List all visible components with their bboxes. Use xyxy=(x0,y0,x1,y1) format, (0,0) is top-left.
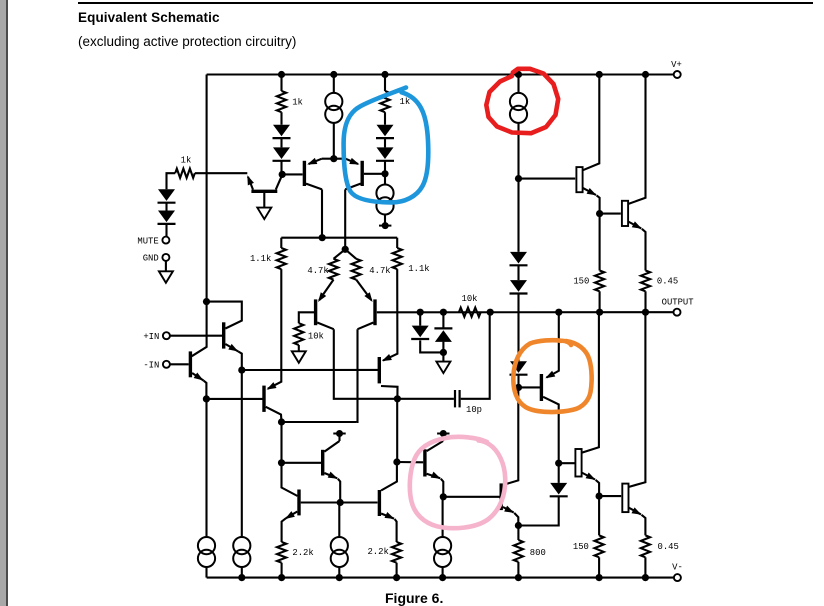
wire N17 down xyxy=(442,497,444,538)
wire N17 to Q15 base xyxy=(443,496,499,498)
resistor R5 1.1k xyxy=(393,238,430,274)
wire N1 to Q4 base xyxy=(282,173,302,175)
terminal +IN xyxy=(143,332,170,342)
wire N14 to Q14 base xyxy=(397,461,423,463)
transistor Q8 bar xyxy=(314,299,317,325)
transistor Q17 collector xyxy=(628,75,645,205)
resistor R3 1k xyxy=(380,75,410,125)
svg-text:4.7k: 4.7k xyxy=(307,266,328,276)
wire V- bottom rail xyxy=(207,577,674,579)
terminal MUTE xyxy=(137,236,169,246)
ground (Q3 base) xyxy=(257,208,271,220)
transistor Q6 emitter arrow xyxy=(265,382,277,392)
wire N11 to Q6 base xyxy=(206,398,263,400)
wire N10 to Q10 base xyxy=(242,369,378,371)
transistor Q17 emitter xyxy=(628,221,645,270)
wire mute 1k to Q3 emitter xyxy=(195,172,248,174)
transistor Q1 bar xyxy=(222,322,225,348)
ground (GND terminal) xyxy=(159,271,173,283)
node rail dot R15 xyxy=(596,574,603,581)
transistor Q4 emitter xyxy=(306,158,322,168)
wire N23 to Q20 base xyxy=(599,495,621,497)
resistor R11 2.2k xyxy=(367,542,401,578)
transistor Q14 bar xyxy=(423,449,426,476)
wire -IN to Q2 base xyxy=(170,363,189,365)
capacitor C1 10p xyxy=(455,390,482,415)
diode D2 (mute) xyxy=(158,203,176,237)
wire cap right xyxy=(461,312,490,399)
svg-text:MUTE: MUTE xyxy=(137,236,158,246)
transistor Q20 bar xyxy=(622,484,628,512)
transistor Q9 emitter xyxy=(356,280,375,304)
node rail dot R2 xyxy=(278,71,285,78)
node output dot Q18 xyxy=(555,309,562,316)
node N23 xyxy=(596,493,603,500)
transistor Q9 bar xyxy=(373,299,376,325)
current source CS7 (red circled) xyxy=(510,93,527,179)
wire left rail (V+ to Q2 collector) xyxy=(192,75,207,357)
resistor R9 10k xyxy=(459,294,481,317)
svg-text:1k: 1k xyxy=(181,155,192,165)
ground (clamp diodes) xyxy=(436,362,450,374)
transistor Q4 collector xyxy=(306,184,322,190)
resistor R7 4.7k xyxy=(345,249,390,279)
node rail dot Q17 xyxy=(642,71,649,78)
transistor Q6 collector xyxy=(266,407,282,422)
transistor Q13 bar xyxy=(297,490,300,516)
svg-text:10k: 10k xyxy=(308,332,324,342)
node N4 xyxy=(319,234,326,241)
node N8 xyxy=(440,349,447,356)
transistor Q1 collector xyxy=(207,302,242,329)
transistor Q20 emitter xyxy=(629,507,646,535)
current source CS6 xyxy=(434,537,451,578)
wire V+ top rail xyxy=(207,73,674,75)
transistor Q18 collector xyxy=(543,397,559,463)
current source CS5 xyxy=(331,537,348,578)
transistor Q13 base wire xyxy=(301,501,339,503)
wire output node xyxy=(377,311,674,313)
transistor Q2 bar xyxy=(189,351,192,377)
svg-text:1k: 1k xyxy=(400,97,411,107)
diode D10 xyxy=(510,265,528,361)
annotation blue loop xyxy=(344,88,429,203)
node N3 (Q5 base node) xyxy=(381,170,388,177)
node rail dot R10 xyxy=(278,574,285,581)
terminal Q14 collector tap xyxy=(437,430,449,437)
resistor R10 2.2k xyxy=(277,542,314,578)
transistor Q3 emitter xyxy=(244,174,254,190)
svg-text:800: 800 xyxy=(530,548,546,558)
transistor Q2 emitter xyxy=(192,373,206,399)
node N13 xyxy=(394,395,401,402)
transistor Q12 emitter xyxy=(381,512,397,542)
node N11 (Q2 emitter) xyxy=(203,395,210,402)
resistor R8 10k xyxy=(294,323,324,345)
transistor Q11 bar xyxy=(321,450,324,476)
transistor Q18 bar xyxy=(540,374,543,401)
svg-text:V-: V- xyxy=(672,563,683,573)
transistor Q20 collector xyxy=(629,312,646,487)
transistor Q3 bar xyxy=(251,190,277,193)
transistor Q18 emitter xyxy=(544,312,559,381)
node N17 xyxy=(440,493,447,500)
wire N15 to Q13 collector xyxy=(282,463,298,496)
annotation pink loop xyxy=(410,437,505,528)
wire 1.1k feed rail xyxy=(281,237,397,239)
wire N12 down xyxy=(280,422,282,463)
resistor R1 1k (mute) xyxy=(175,155,195,177)
wire N16 down xyxy=(338,503,340,538)
node N7 xyxy=(440,309,447,316)
wire N21 to Q19 base xyxy=(559,462,576,464)
transistor Q16 emitter xyxy=(583,188,600,214)
svg-text:1.1k: 1.1k xyxy=(250,254,271,264)
resistor R2 1k xyxy=(277,75,303,125)
terminal Q11 collector tap xyxy=(333,430,345,437)
terminal V+ xyxy=(671,60,682,78)
node rail dot R14 xyxy=(515,574,522,581)
transistor Q19 bar xyxy=(575,449,581,477)
wire Q5 collector drop xyxy=(344,189,346,249)
wire N12 rail xyxy=(282,421,357,423)
diode D3 xyxy=(273,125,291,138)
transistor Q5 bar xyxy=(361,161,364,186)
diode D5 xyxy=(376,125,394,138)
diode D7 clamp xyxy=(411,312,443,352)
svg-text:150: 150 xyxy=(573,542,589,552)
transistor Q5 collector xyxy=(345,184,360,190)
node rail dot CS4 xyxy=(238,574,245,581)
transistor Q15 collector xyxy=(503,387,518,485)
node rail dot R16 xyxy=(642,574,649,581)
wire GND stub xyxy=(165,261,167,271)
current source CS3 xyxy=(198,537,215,578)
transistor Q19 emitter xyxy=(582,472,600,496)
transistor Q11 collector xyxy=(324,434,339,452)
transistor Q8 emitter xyxy=(315,280,333,304)
wire N20 to Q17 base xyxy=(600,213,621,215)
transistor Q15 bar xyxy=(500,483,503,510)
wire R8 ground stub xyxy=(298,345,300,351)
transistor Q11 emitter xyxy=(324,472,340,503)
wire N19 to Q18 base xyxy=(519,386,541,388)
node rail dot CS5 xyxy=(336,574,343,581)
node output dot R12 xyxy=(596,309,603,316)
node rail dot Q16 xyxy=(596,71,603,78)
wire R5 to Q10 emitter xyxy=(383,269,397,361)
transistor Q19 collector xyxy=(582,312,599,453)
svg-text:0.45: 0.45 xyxy=(658,542,679,552)
annotation orange loop xyxy=(513,340,591,412)
annotation red loop xyxy=(486,69,558,133)
transistor Q16 collector xyxy=(583,75,600,171)
node N20 xyxy=(596,210,603,217)
wire N16 to Q12 base xyxy=(340,501,377,503)
node N14 xyxy=(393,458,400,465)
node N5 (4.7k feed) xyxy=(342,246,349,253)
transistor Q14 emitter xyxy=(427,472,444,497)
transistor Q12 bar xyxy=(378,490,381,516)
wire Q1 emitter down xyxy=(241,370,243,537)
terminal CS2 tap xyxy=(379,222,391,229)
svg-text:150: 150 xyxy=(573,276,589,286)
current source CS1 xyxy=(325,75,342,159)
svg-text:OUTPUT: OUTPUT xyxy=(662,298,694,308)
wire Q8 base corner xyxy=(299,312,314,323)
wire Q5 base to N3 xyxy=(364,173,385,175)
svg-text:10p: 10p xyxy=(466,405,482,415)
node output dot R13 xyxy=(642,309,649,316)
transistor Q9 collector xyxy=(358,323,374,330)
current source CS4 xyxy=(233,537,250,578)
terminal OUTPUT xyxy=(662,298,694,316)
node N10 (Q1 emitter) xyxy=(238,367,245,374)
resistor R14 800 xyxy=(514,526,546,578)
diode D11 xyxy=(510,361,528,387)
transistor Q14 collector xyxy=(427,434,444,452)
wire N18 to Q16 base xyxy=(519,178,576,180)
wire cap left xyxy=(397,398,454,400)
wire D8 ground stub xyxy=(442,352,444,361)
wire N15 to Q11 base xyxy=(282,462,322,464)
svg-text:2.2k: 2.2k xyxy=(292,548,313,558)
transistor Q10 collector xyxy=(381,386,398,399)
wire Q8 collector drop xyxy=(334,329,398,399)
svg-text:1.1k: 1.1k xyxy=(408,264,429,274)
terminal -IN xyxy=(143,361,170,371)
wire red CS feed xyxy=(517,75,519,94)
node rail dot R11 xyxy=(393,574,400,581)
node N1 (Q4 base node) xyxy=(279,171,286,178)
transistor Q17 bar xyxy=(622,201,628,226)
node rail dot CS6 xyxy=(439,574,446,581)
ground (R8) xyxy=(292,351,306,363)
node rail dot CS7 xyxy=(515,71,522,78)
wire N18 down xyxy=(517,179,519,252)
svg-text:10k: 10k xyxy=(462,294,478,304)
node N9 (cap top) xyxy=(487,309,494,316)
transistor Q3 collector xyxy=(276,176,282,190)
transistor Q10 emitter arrow xyxy=(380,354,391,364)
node N18 (driver base) xyxy=(515,175,522,182)
resistor R6 4.7k xyxy=(307,249,345,279)
node left rail junction A xyxy=(203,298,210,305)
svg-text:2.2k: 2.2k xyxy=(367,547,388,557)
svg-text:V+: V+ xyxy=(671,60,682,70)
transistor Q12 collector xyxy=(381,462,397,491)
wire mute 1k left corner xyxy=(167,173,176,189)
resistor R15 150 xyxy=(573,496,604,577)
transistor Q6 bar xyxy=(262,386,265,412)
transistor Q1 emitter xyxy=(225,344,241,370)
svg-text:-IN: -IN xyxy=(143,361,159,371)
node N22 (800 top) xyxy=(515,522,522,529)
transistor Q16 bar xyxy=(576,167,582,192)
transistor Q8 collector xyxy=(317,323,334,330)
transistor Q15 emitter xyxy=(503,506,518,526)
wire R4 to Q6 emitter xyxy=(268,269,282,389)
node N6 xyxy=(417,309,424,316)
wire +IN to Q1 base xyxy=(170,335,222,337)
wire N13 down xyxy=(396,399,398,462)
resistor R4 1.1k xyxy=(250,238,286,269)
terminal GND xyxy=(143,254,170,264)
transistor Q10 bar xyxy=(378,357,381,383)
node N15 xyxy=(278,459,285,466)
svg-text:+IN: +IN xyxy=(143,332,159,342)
node N19 xyxy=(515,384,522,391)
svg-text:4.7k: 4.7k xyxy=(369,266,390,276)
resistor R16 0.45 xyxy=(641,535,679,577)
diode D9 xyxy=(510,252,528,265)
wire Q3 base stub xyxy=(263,193,265,208)
wire Q9 collector drop xyxy=(356,329,359,422)
resistor R13 0.45 xyxy=(641,271,678,313)
diode D1 (mute) xyxy=(158,189,176,202)
diode D8 clamp xyxy=(434,312,452,352)
node N12 xyxy=(278,418,285,425)
diode D6 xyxy=(376,138,394,174)
resistor R12 150 xyxy=(573,214,604,313)
node N21 xyxy=(555,460,562,467)
svg-text:GND: GND xyxy=(143,254,159,264)
current source CS2 xyxy=(376,174,393,226)
wire Q4/Q5 emitter link xyxy=(322,158,346,160)
node N2 emitters dot xyxy=(330,155,337,162)
diode D4 xyxy=(273,138,291,175)
svg-text:1k: 1k xyxy=(292,98,303,108)
transistor Q13 emitter xyxy=(282,511,298,542)
wire Q2 emitter down xyxy=(205,399,207,538)
svg-text:0.45: 0.45 xyxy=(657,276,678,286)
diode D12 xyxy=(518,463,567,525)
node rail dot R3 xyxy=(381,71,388,78)
node rail dot CS1 xyxy=(330,71,337,78)
terminal V- xyxy=(672,563,683,582)
transistor Q5 emitter xyxy=(346,158,361,168)
node N16 xyxy=(337,499,344,506)
transistor Q4 bar xyxy=(303,161,306,186)
wire Q4 collector drop xyxy=(321,189,323,237)
